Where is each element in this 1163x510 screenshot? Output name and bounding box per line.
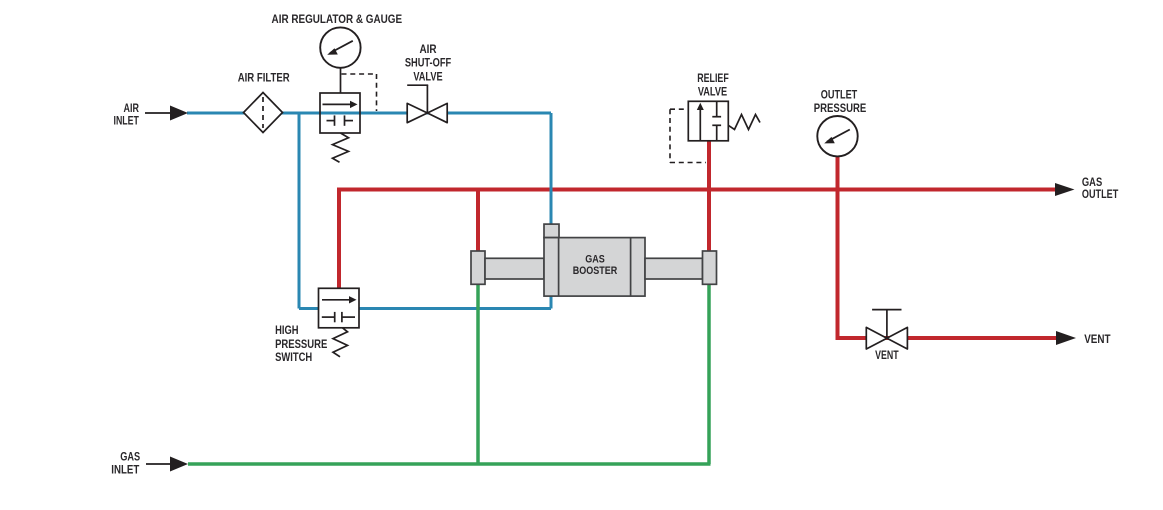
svg-text:BOOSTER: BOOSTER — [573, 265, 618, 277]
svg-text:SHUT-OFF: SHUT-OFF — [405, 56, 451, 70]
label: GAS OUTLET — [1082, 175, 1119, 201]
air regulator R1 body — [320, 93, 360, 133]
wire: dashed pilot line of regulator — [342, 74, 377, 111]
svg-text:OUTLET: OUTLET — [821, 88, 858, 102]
svg-text:HIGH: HIGH — [275, 323, 298, 337]
wire: red vertical to high pressure switch — [337, 188, 341, 289]
wire: red vertical relief valve to booster right cap — [707, 140, 711, 252]
top air tab — [544, 224, 559, 238]
left end cap — [471, 251, 485, 284]
wire: red gas outlet main horizontal — [339, 188, 1056, 192]
wire: green gas inlet horizontal — [188, 462, 711, 466]
air shut-off valve V1 (bowtie) — [407, 85, 447, 123]
svg-text:VALVE: VALVE — [413, 69, 442, 83]
pressure gauge G1 (air regulator gauge) — [320, 27, 360, 67]
label: GAS INLET — [111, 449, 140, 476]
pressure gauge G2 (outlet pressure) — [817, 116, 857, 156]
svg-text:AIR: AIR — [419, 42, 436, 56]
main body — [544, 238, 645, 297]
wire: blue lower horizontal to high pressure switch — [299, 307, 551, 310]
wire: red vent horizontal — [836, 336, 1057, 340]
label: AIR SHUT-OFF VALVE — [405, 42, 451, 83]
svg-text:SWITCH: SWITCH — [275, 350, 312, 364]
wire: blue vertical at x=551 down to switch level — [550, 113, 553, 309]
svg-text:PRESSURE: PRESSURE — [275, 337, 327, 351]
right end cap — [703, 251, 717, 284]
arrow: air inlet — [145, 106, 188, 121]
vent valve V2 (bowtie) — [866, 310, 907, 349]
label: RELIEF VALVE — [697, 71, 729, 99]
spring of high pressure switch — [333, 328, 348, 357]
svg-text:VENT: VENT — [1084, 332, 1111, 346]
svg-text:RELIEF: RELIEF — [697, 71, 729, 85]
svg-text:GAS: GAS — [585, 253, 605, 265]
svg-text:INLET: INLET — [114, 113, 140, 127]
arrow: gas inlet — [146, 457, 188, 472]
relief valve RV1 body — [688, 101, 728, 141]
svg-text:OUTLET: OUTLET — [1082, 187, 1119, 201]
label: GAS BOOSTER — [573, 253, 618, 277]
label: OUTLET PRESSURE — [814, 88, 867, 116]
right piston rod — [645, 258, 703, 279]
air filter F1 (diamond with dashed element) — [244, 93, 283, 133]
wire: red vertical to booster left cap — [476, 190, 480, 253]
left piston rod — [485, 258, 544, 279]
wire: green vertical from booster right cap — [707, 284, 711, 464]
svg-text:AIR REGULATOR & GAUGE: AIR REGULATOR & GAUGE — [272, 12, 403, 26]
arrow: vent outlet — [1056, 331, 1076, 345]
svg-text:VALVE: VALVE — [698, 85, 727, 99]
spring of regulator — [333, 133, 349, 162]
label: HIGH PRESSURE SWITCH — [275, 323, 327, 364]
high pressure switch S1 body — [319, 288, 360, 328]
wire: red vertical from outlet gauge down to vent line — [836, 156, 840, 338]
svg-text:AIR FILTER: AIR FILTER — [238, 70, 290, 84]
wire: green vertical from booster left cap — [476, 284, 480, 464]
arrow: gas outlet — [1055, 183, 1075, 196]
spring of relief valve — [728, 115, 760, 130]
gas booster B1 assembly — [471, 224, 717, 296]
wire: dashed pilot line of relief valve — [670, 109, 706, 162]
wire: blue air supply main horizontal — [187, 112, 551, 115]
wire: gauge stem of regulator — [340, 68, 342, 93]
svg-text:GAS: GAS — [120, 449, 140, 463]
svg-text:PRESSURE: PRESSURE — [814, 101, 867, 115]
label: AIR INLET — [114, 101, 140, 127]
svg-text:INLET: INLET — [111, 463, 140, 477]
wire: blue branch down at x=299 — [298, 115, 301, 309]
svg-text:VENT: VENT — [875, 348, 899, 362]
